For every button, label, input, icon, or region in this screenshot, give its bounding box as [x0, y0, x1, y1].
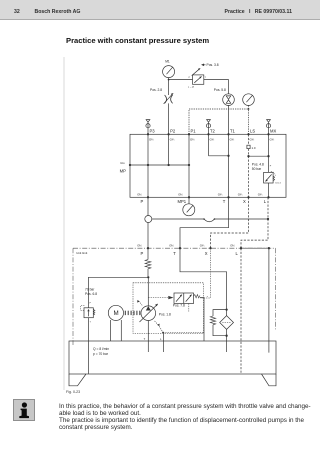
svg-text:L: L: [236, 251, 239, 256]
pressure gauge MP1: [183, 197, 195, 216]
svg-text:Pos. 7.8: Pos. 7.8: [173, 304, 185, 308]
port MP label: [120, 161, 126, 173]
wire P2 line: [168, 134, 170, 165]
node port MP1: [178, 193, 191, 204]
wire dashed unit L leak line into tank: [240, 248, 242, 374]
svg-text:P: P: [141, 251, 144, 256]
node pump pressure junction: [147, 276, 149, 278]
node port X lower: [238, 193, 250, 204]
wire dashed gauge to LS port: [248, 105, 250, 134]
wire MX line upper: [268, 134, 270, 172]
hose sag line P circle to L line: [152, 218, 268, 222]
svg-text:T: T: [90, 321, 92, 323]
svg-text:L: L: [160, 337, 162, 341]
wire flow meter to port T1: [228, 105, 230, 134]
svg-text:x: x: [207, 296, 209, 298]
node port P3: [147, 129, 155, 142]
unit limit label: [76, 251, 87, 255]
wire T1 line: [228, 134, 230, 197]
node on L dashed line: [267, 218, 269, 220]
coupling shaft motor-pump: [125, 311, 140, 315]
pressure gauge M1: [163, 60, 175, 80]
svg-text:Unit limit: Unit limit: [76, 251, 87, 255]
node port MX: [267, 129, 276, 142]
wire throttle to port P2: [168, 103, 170, 134]
pressure relief valve Pos 4.8: [252, 163, 282, 185]
pump dashed group box: [133, 283, 204, 334]
pressure gauge on LS line: [243, 94, 255, 106]
unit limit boundary left: [72, 248, 74, 345]
svg-text:X: X: [205, 251, 208, 256]
pump control arrow NW: [137, 300, 143, 306]
title: [66, 36, 209, 45]
wire unit T to return filter: [180, 248, 227, 309]
wire unit rail L to return drop: [241, 247, 270, 353]
node unit port L: [230, 244, 242, 256]
svg-text:T: T: [144, 337, 146, 341]
wire LS-MX jumper: [247, 155, 269, 157]
svg-text:G¼: G¼: [137, 244, 142, 248]
unit limit boundary top: [73, 247, 276, 249]
wire gauge node down to throttle: [168, 80, 170, 95]
coupling circle on P line: [145, 197, 152, 248]
svg-text:Pos. 1.8: Pos. 1.8: [159, 312, 171, 316]
pressure relief valve Pos 6.8: [81, 288, 98, 324]
variable displacement pump Pos 1.8: [140, 304, 172, 322]
throttle valve Pos 2.8: [150, 88, 173, 104]
wire junction to relief valve Pos 6.8: [89, 277, 149, 308]
hose coil on P line: [145, 248, 151, 277]
svg-text:M: M: [114, 310, 119, 317]
pressure relief valve Pos 3.8: [188, 63, 219, 89]
svg-text:T: T: [173, 251, 176, 256]
measuring coupling above P3: [146, 120, 150, 135]
node unit port T: [169, 244, 181, 256]
unit limit boundary right: [275, 248, 277, 330]
node port T1: [227, 129, 235, 142]
pump control arrow SE: [154, 320, 163, 332]
bypass spring branch: [210, 310, 226, 336]
electric motor M: [108, 305, 123, 341]
svg-text:Q = 8 l/min: Q = 8 l/min: [93, 347, 109, 351]
flow meter Pos 5.8: [214, 88, 235, 105]
wire dashed X pilot to valve: [200, 248, 211, 298]
return filter: [220, 310, 234, 336]
tank inlet labels: [144, 337, 162, 341]
node port P1: [188, 129, 196, 142]
wire T2 line: [208, 134, 210, 156]
pump control valve Pos 7.8: [168, 293, 200, 312]
wire dashed L drain to unit L: [241, 197, 268, 248]
measuring coupling above MX: [266, 120, 270, 135]
figure left border rule: [63, 57, 65, 390]
svg-text:G¼: G¼: [230, 244, 235, 248]
svg-text:70 bar: 70 bar: [85, 288, 95, 292]
wire case drain pipe into tank: [163, 333, 165, 353]
body text: [59, 403, 320, 431]
tank: [69, 341, 276, 386]
node LS pilot junction: [248, 108, 250, 110]
node below gauge M1: [168, 79, 170, 81]
wire MX line lower: [268, 183, 270, 197]
wire valve Pos 3.8 to flow meter: [204, 80, 229, 94]
svg-text:P: P: [90, 302, 92, 304]
wire dashed case drain: [162, 332, 203, 334]
wire T2-T1 jumper: [209, 155, 230, 157]
plug X 1.0 on LS line: [247, 145, 256, 150]
node port L lower: [258, 193, 270, 204]
wire P1 line: [188, 134, 190, 197]
wire P3 line: [147, 134, 149, 197]
svg-text:Pos. 6.8: Pos. 6.8: [85, 292, 97, 296]
node unit port P: [137, 244, 149, 256]
header band: [0, 0, 320, 20]
manifold block outline: [130, 134, 286, 197]
node port T lower: [218, 193, 230, 204]
wire dashed pilot from P1: [189, 109, 249, 134]
node port P2: [167, 129, 175, 142]
wire MP mid rail: [129, 164, 190, 166]
node port LS: [247, 129, 255, 142]
svg-text:G¼: G¼: [169, 244, 174, 248]
svg-text:p = 70 bar: p = 70 bar: [93, 352, 109, 356]
node filter bottom: [225, 335, 227, 352]
wire dashed pilot pump to control valve: [148, 297, 168, 299]
info icon: [13, 399, 35, 421]
wire gauge node to valve Pos 3.8: [169, 79, 193, 81]
wire control valve to tank: [200, 298, 204, 341]
wire LS dashed line: [248, 134, 250, 197]
wire junction to pump outlet: [147, 277, 149, 306]
wire pump suction to tank: [147, 321, 149, 353]
node unit port X: [200, 244, 212, 256]
node port T2: [207, 129, 215, 142]
wire dashed X pilot to unit X: [211, 197, 249, 248]
wire relief valve drain to tank: [88, 318, 90, 374]
figure caption: [66, 390, 80, 394]
node port P lower: [137, 193, 149, 204]
wire T down-jog to unit T: [180, 197, 229, 248]
svg-text:G¼: G¼: [200, 244, 205, 248]
node filter top: [225, 308, 227, 310]
measuring coupling above T2: [206, 120, 210, 135]
